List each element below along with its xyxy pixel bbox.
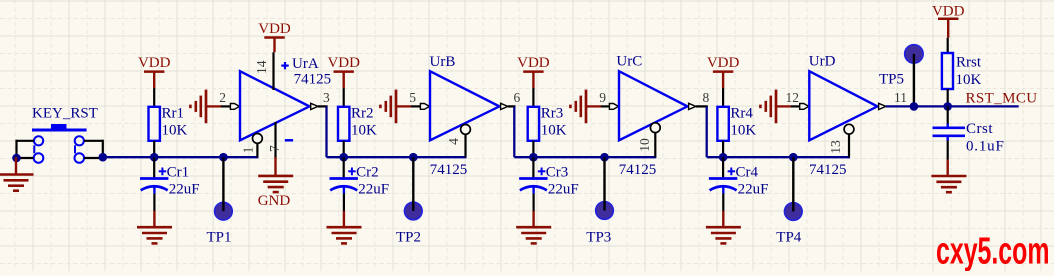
wire (Rr1 to rail) — [153, 141, 155, 157]
junction (button right on rail) — [99, 153, 108, 162]
wire (rail to Cr1) — [153, 157, 155, 177]
svg-text:Rr3: Rr3 — [541, 106, 564, 122]
test point TP3 — [596, 157, 614, 219]
svg-text:14: 14 — [254, 60, 269, 74]
svg-text:0.1uF: 0.1uF — [966, 139, 1005, 155]
wire (rail to Cr4) — [722, 157, 724, 177]
svg-text:TP2: TP2 — [396, 230, 421, 246]
svg-text:22uF: 22uF — [358, 182, 389, 198]
svg-text:Cr4: Cr4 — [736, 165, 759, 181]
test point TP1 — [215, 157, 233, 220]
wire (VDD to Rr3) — [532, 88, 534, 108]
svg-text:74125: 74125 — [294, 72, 332, 88]
svg-text:Rrst: Rrst — [956, 55, 982, 71]
test point TP5 — [905, 45, 923, 107]
svg-text:10: 10 — [637, 138, 652, 152]
power port VDD (stage 4) — [707, 55, 740, 88]
svg-text:cxy5.com: cxy5.com — [936, 231, 1050, 272]
wire (rail to UrB enable pin) — [464, 134, 466, 157]
svg-text:VDD: VDD — [138, 55, 171, 71]
label Cr2 value — [356, 165, 389, 198]
svg-text:74125: 74125 — [619, 162, 657, 178]
svg-text:UrD: UrD — [809, 54, 836, 70]
resistor Rr4 — [717, 107, 728, 141]
wire (button left bracket) — [17, 140, 34, 158]
wire (Cr1 to ground) — [153, 194, 155, 228]
svg-text:1: 1 — [241, 147, 256, 154]
svg-text:2: 2 — [219, 90, 226, 105]
power port VDD (UrA pin 14) — [258, 21, 291, 52]
svg-text:Rr2: Rr2 — [351, 106, 374, 122]
wire (VDD to Rrst) — [947, 38, 949, 54]
wire (Cr3 to ground) — [532, 194, 534, 228]
svg-text:12: 12 — [786, 90, 800, 105]
inversion bubble (UrD enable pin) — [844, 124, 854, 134]
svg-text:13: 13 — [828, 140, 843, 154]
svg-text:10K: 10K — [730, 123, 756, 139]
svg-text:VDD: VDD — [517, 55, 550, 71]
label Cr3 value — [546, 165, 579, 198]
marker - (power pin) — [285, 139, 293, 142]
wire (ground to UrB input pin) — [411, 105, 421, 107]
label Rr4 value — [730, 106, 756, 139]
svg-text:8: 8 — [703, 90, 710, 105]
wire (pin 7 to ground) — [274, 157, 276, 176]
ground (rotated, at UrC input) — [570, 90, 601, 124]
wire (UrD output to RST_MCU) — [886, 105, 1019, 107]
pin arrow (UrC output) — [689, 103, 696, 109]
ground (UrA pin 7) — [258, 176, 293, 192]
op-amp buffer UrD (74125 gate) — [809, 71, 877, 140]
wire (RC node rail, stage 4) — [707, 156, 850, 158]
svg-text:Rr4: Rr4 — [730, 106, 753, 122]
power port VDD (stage 1) — [138, 55, 171, 88]
svg-text:22uF: 22uF — [548, 182, 579, 198]
svg-text:TP3: TP3 — [586, 230, 611, 246]
svg-text:KEY_RST: KEY_RST — [32, 106, 98, 122]
junction (TP3 on rail) — [600, 153, 609, 162]
wire (Rr3 to rail) — [532, 141, 534, 157]
wire (rail to UrC enable pin) — [654, 132, 656, 157]
svg-text:VDD: VDD — [327, 55, 360, 71]
svg-text:10K: 10K — [541, 123, 567, 139]
junction (TP1 on rail) — [219, 153, 228, 162]
svg-text:VDD: VDD — [258, 21, 291, 37]
capacitor Cr1 (polarized) — [140, 168, 168, 194]
wire (rail to UrA enable pin) — [256, 143, 258, 157]
ground (below Cr3) — [516, 227, 551, 243]
wire (button to ground) — [15, 157, 17, 175]
pin arrow (UrA output) — [311, 103, 318, 109]
wire (UrA output to stage 2 rail) — [318, 106, 328, 157]
junction (Rr2/Cr2 on rail) — [339, 153, 348, 162]
svg-text:7: 7 — [267, 145, 282, 152]
op-amp buffer UrA (74125 gate) — [240, 71, 310, 140]
svg-text:10K: 10K — [351, 123, 377, 139]
wire (rail to Cr2) — [343, 157, 345, 177]
svg-text:9: 9 — [599, 90, 606, 105]
wire (rail to Cr3) — [532, 157, 534, 177]
svg-text:Cr2: Cr2 — [356, 165, 379, 181]
svg-text:TP1: TP1 — [207, 230, 232, 246]
wire (Cr4 to ground) — [722, 194, 724, 228]
junction (TP5 on output wire) — [910, 102, 919, 111]
svg-text:Rr1: Rr1 — [162, 106, 185, 122]
wire (ground to UrA input pin) — [221, 105, 231, 107]
power port VDD (stage 3) — [517, 55, 550, 88]
capacitor Cr4 (polarized) — [709, 168, 737, 194]
wire (RC node rail, stage 2) — [327, 156, 467, 158]
label Rr3 value — [541, 106, 567, 139]
push button KEY_RST — [32, 124, 87, 163]
pin arrow (UrB input) — [420, 104, 429, 110]
inversion bubble (UrB enable pin) — [461, 124, 471, 134]
svg-text:Cr1: Cr1 — [167, 165, 190, 181]
wire (rail to UrD enable pin) — [848, 134, 850, 158]
resistor Rr1 — [149, 107, 160, 141]
wire (Cr2 to ground) — [343, 194, 345, 228]
pin arrow (UrD output) — [879, 103, 886, 109]
ground (at button) — [0, 175, 34, 191]
svg-text:74125: 74125 — [809, 162, 847, 178]
junction (Rr3/Cr3 on rail) — [529, 153, 538, 162]
wire (button right bracket) — [84, 140, 103, 158]
label Cr1 value — [167, 165, 200, 198]
wire (ground to UrC input pin) — [601, 105, 611, 107]
svg-text:22uF: 22uF — [738, 182, 769, 198]
wire (Crst to ground) — [947, 141, 949, 177]
svg-text:22uF: 22uF — [169, 182, 200, 198]
label Rr1 value — [162, 106, 188, 139]
svg-text:11: 11 — [894, 90, 907, 105]
wire (VDD to Rr4) — [722, 88, 724, 108]
resistor Rr3 — [528, 107, 539, 141]
resistor Rr2 — [338, 107, 349, 141]
ground (below Cr4) — [706, 227, 741, 243]
ground (rotated, at UrD input) — [760, 90, 791, 124]
wire (RC node rail, stage 3) — [514, 156, 656, 158]
svg-text:UrC: UrC — [616, 54, 642, 70]
svg-text:10K: 10K — [956, 72, 982, 88]
ground (below Cr1) — [137, 227, 172, 243]
capacitor Cr3 (polarized) — [519, 168, 547, 194]
wire (UrB output to stage 3 rail) — [508, 106, 516, 157]
svg-text:TP5: TP5 — [879, 72, 904, 88]
wire (Rrst to output wire) — [947, 89, 949, 106]
junction (TP2 on rail) — [409, 153, 418, 162]
label Rr2 value — [351, 106, 377, 139]
wire (RC node rail, stage 1) — [103, 156, 259, 158]
pin arrow (UrC input) — [609, 104, 618, 110]
wire (Rr4 to rail) — [722, 141, 724, 157]
svg-text:5: 5 — [409, 90, 416, 105]
wire (VDD to Rr2) — [343, 88, 345, 108]
ground (rotated, at UrA input) — [190, 90, 221, 124]
svg-text:UrA: UrA — [292, 56, 319, 72]
svg-text:3: 3 — [323, 90, 330, 105]
svg-text:6: 6 — [514, 90, 521, 105]
junction (Rr4/Cr4 on rail) — [719, 153, 728, 162]
junction (Rr1/Cr1 on rail) — [150, 153, 159, 162]
ground (below Crst) — [931, 176, 966, 192]
inversion bubble (UrA enable pin) — [253, 134, 263, 144]
label Cr4 value — [736, 165, 769, 198]
wire (ground to UrD input pin) — [791, 105, 801, 107]
svg-text:GND: GND — [258, 193, 291, 209]
wire (output wire to Crst) — [947, 106, 949, 124]
capacitor Cr2 (polarized) — [330, 168, 358, 194]
op-amp buffer UrC (74125 gate) — [619, 71, 687, 140]
ground (rotated, at UrB input) — [380, 90, 411, 124]
wire (VDD to Rr1) — [153, 88, 155, 108]
junction (TP4 on rail) — [789, 153, 798, 162]
ground (below Cr2) — [327, 227, 362, 243]
op-amp buffer UrB (74125 gate) — [430, 71, 499, 140]
svg-text:Crst: Crst — [966, 121, 993, 137]
power port VDD (Rrst) — [932, 4, 965, 38]
inversion bubble (UrC enable pin) — [650, 123, 660, 133]
wire (UrC output to stage 4 rail) — [696, 106, 708, 157]
svg-text:74125: 74125 — [430, 162, 468, 178]
label Crst value — [966, 121, 1005, 155]
test point TP2 — [405, 157, 423, 220]
wire (Rr2 to rail) — [343, 141, 345, 157]
pin 14 (UrA VDD pin) — [272, 52, 274, 90]
svg-text:Cr3: Cr3 — [546, 165, 569, 181]
pin arrow (UrD input) — [800, 104, 809, 110]
test point TP4 — [785, 157, 803, 220]
svg-text:VDD: VDD — [932, 4, 965, 20]
marker + (power pin) — [281, 62, 288, 69]
svg-text:RST_MCU: RST_MCU — [966, 91, 1038, 107]
svg-text:TP4: TP4 — [776, 230, 802, 246]
capacitor Crst — [933, 124, 966, 141]
svg-text:VDD: VDD — [707, 55, 740, 71]
junction (Rrst/Crst on output wire) — [943, 102, 952, 111]
pin 7 (UrA GND pin) — [274, 122, 276, 159]
svg-text:10K: 10K — [162, 123, 188, 139]
junction (button left to ground) — [12, 154, 21, 163]
power port VDD (stage 2) — [327, 55, 360, 88]
resistor Rrst — [942, 53, 953, 89]
pin arrow (UrB output) — [501, 103, 508, 109]
pin arrow (UrA input) — [230, 104, 239, 110]
label Rrst value — [956, 55, 982, 89]
svg-text:UrB: UrB — [430, 54, 456, 70]
svg-text:4: 4 — [446, 138, 461, 145]
